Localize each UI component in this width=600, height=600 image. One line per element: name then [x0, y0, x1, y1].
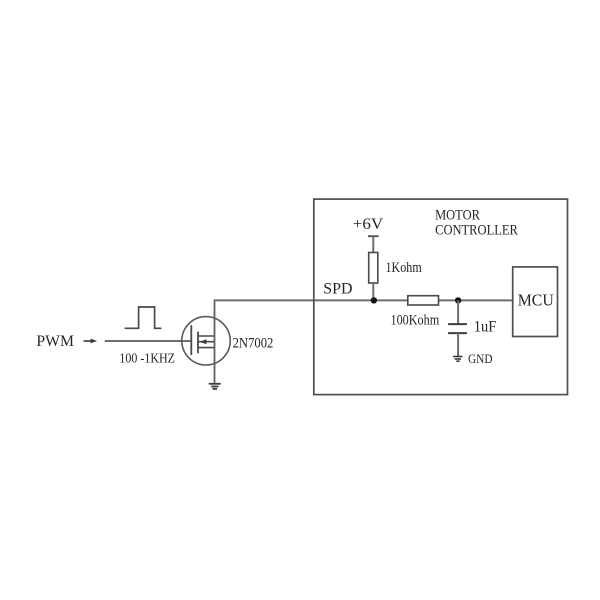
svg-text:+6V: +6V: [353, 216, 384, 233]
wire gate input: [105, 340, 192, 342]
transistor Q1 2N7002 circle: [182, 317, 230, 365]
resistor R2 100Kohm: [408, 296, 439, 305]
power +6V T bar: [368, 235, 379, 237]
svg-text:SPD: SPD: [323, 280, 352, 297]
svg-text:1uF: 1uF: [474, 318, 497, 335]
svg-text:GND: GND: [468, 352, 493, 366]
svg-text:MOTOR: MOTOR: [435, 207, 480, 223]
node SPD junction dot: [371, 297, 377, 303]
svg-text:MCU: MCU: [518, 291, 554, 310]
svg-text:CONTROLLER: CONTROLLER: [435, 222, 518, 238]
capacitor C1 plates: [448, 323, 467, 325]
svg-text:1Kohm: 1Kohm: [386, 260, 422, 276]
box MOTOR CONTROLLER: [314, 199, 568, 395]
transistor source stub: [198, 347, 215, 349]
wire +6V to R1: [372, 236, 374, 252]
transistor drain stub: [198, 335, 215, 337]
svg-text:100 -1KHZ: 100 -1KHZ: [119, 352, 175, 367]
ground at capacitor: [453, 357, 463, 362]
node cap junction dot: [455, 297, 461, 303]
wire PWM input arrow: [84, 340, 94, 342]
ground under transistor: [209, 384, 221, 389]
capacitor C1 top lead: [457, 300, 459, 324]
wire R1 to node SPD: [372, 283, 374, 300]
transistor gate bar: [190, 325, 192, 355]
svg-text:100Kohm: 100Kohm: [391, 313, 440, 329]
svg-text:PWM: PWM: [36, 333, 74, 350]
wire drain-source vertical: [214, 300, 216, 384]
capacitor C1 bottom lead: [457, 333, 459, 356]
box MCU: [513, 267, 558, 337]
wire drain to SPD node: [215, 299, 514, 301]
pulse waveform symbol: [125, 307, 162, 328]
transistor channel bar: [197, 332, 199, 354]
svg-text:2N7002: 2N7002: [233, 336, 274, 352]
resistor R1 1Kohm: [369, 253, 378, 284]
transistor body stub with arrow: [198, 341, 215, 343]
